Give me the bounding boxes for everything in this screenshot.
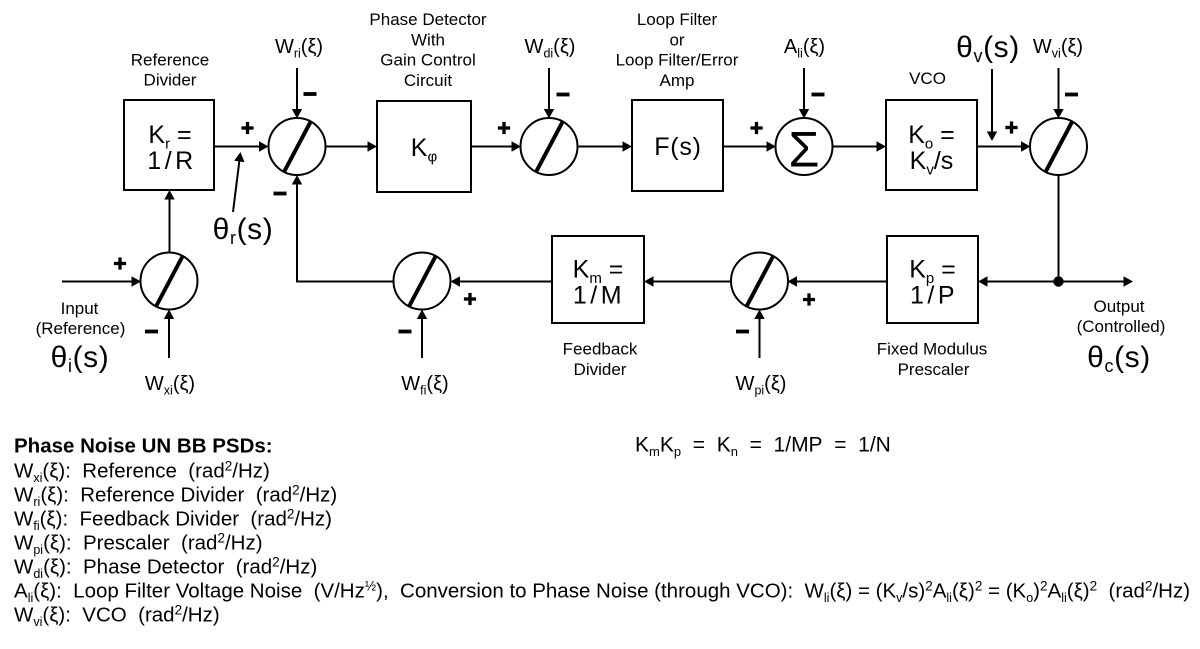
svg-text:VCO: VCO (909, 69, 946, 88)
svg-text:θc​(s): θc​(s) (1087, 341, 1151, 376)
svg-text:(Controlled): (Controlled) (1077, 317, 1166, 336)
svg-text:θv​(s): θv​(s) (956, 31, 1020, 66)
svg-text:Phase Detector: Phase Detector (369, 10, 487, 29)
svg-text:Ali​(ξ): Loop Filter Voltage: Ali​(ξ): Loop Filter Voltage Noise (V/Hz… (14, 579, 1190, 606)
svg-text:Gain Control: Gain Control (380, 51, 475, 70)
svg-text:Loop Filter: Loop Filter (637, 10, 718, 29)
svg-text:Ali​(ξ): Ali​(ξ) (784, 36, 825, 61)
svg-text:Circuit: Circuit (404, 71, 452, 90)
svg-text:(Reference): (Reference) (36, 319, 126, 338)
svg-text:Phase Noise UN BB PSDs:: Phase Noise UN BB PSDs: (14, 435, 273, 458)
svg-text:Wxi​(ξ): Reference (rad2​/Hz: Wxi​(ξ): Reference (rad2​/Hz) (14, 459, 270, 486)
svg-text:θr​(s): θr​(s) (213, 213, 274, 248)
svg-text:or: or (669, 30, 684, 49)
svg-text:Wdi​(ξ): Phase Detector (rad: Wdi​(ξ): Phase Detector (rad2​/Hz) (14, 555, 317, 582)
svg-text:Input: Input (61, 299, 99, 318)
svg-text:Output: Output (1093, 297, 1144, 316)
svg-text:1/P: 1/P (910, 282, 958, 310)
svg-text:F(s): F(s) (654, 133, 702, 161)
svg-text:Wfi​(ξ): Feedback Divider (r: Wfi​(ξ): Feedback Divider (rad2​/Hz) (14, 507, 332, 534)
svg-text:Divider: Divider (144, 71, 197, 90)
svg-text:Km​Kp​ = Kn​ = 1/MP = 1/: Km​Kp​ = Kn​ = 1/MP = 1/N (635, 434, 891, 460)
svg-text:Loop Filter/Error: Loop Filter/Error (616, 51, 739, 70)
svg-text:1/R: 1/R (147, 147, 196, 175)
svg-text:With: With (411, 30, 445, 49)
svg-text:Divider: Divider (574, 360, 627, 379)
svg-text:Reference: Reference (131, 51, 209, 70)
svg-text:Wpi​(ξ): Prescaler (rad2​/Hz: Wpi​(ξ): Prescaler (rad2​/Hz) (14, 531, 263, 558)
svg-text:Wvi​(ξ): VCO (rad2​/Hz): Wvi​(ξ): VCO (rad2​/Hz) (14, 603, 220, 630)
svg-text:Amp: Amp (660, 71, 695, 90)
svg-text:Feedback: Feedback (563, 340, 638, 359)
svg-text:Σ: Σ (789, 122, 820, 178)
svg-text:1/M: 1/M (573, 282, 625, 310)
svg-text:Prescaler: Prescaler (898, 360, 970, 379)
svg-text:Wri​(ξ): Reference Divider (: Wri​(ξ): Reference Divider (rad2​/Hz) (14, 483, 337, 510)
svg-text:θi​(s): θi​(s) (51, 341, 110, 376)
svg-text:Fixed Modulus: Fixed Modulus (877, 340, 988, 359)
